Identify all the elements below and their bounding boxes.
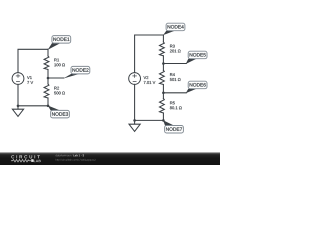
voltage source V2 (129, 73, 141, 85)
junction node B (162, 62, 165, 65)
footer url text (56, 159, 96, 161)
wire node C to NODE6 tip (163, 92, 186, 94)
wire V2 bottom (134, 84, 136, 120)
junction node C (162, 92, 165, 95)
wire bottom left rail (18, 105, 48, 107)
wire R2 bottom lead (47, 98, 49, 106)
label R2 name (54, 87, 59, 90)
node flag NODE2 (63, 66, 90, 78)
wire R3 top lead (162, 35, 164, 42)
wire R4 top lead (162, 64, 164, 71)
label V2 value (144, 81, 156, 84)
label V1 value (27, 81, 33, 84)
label V2 name (144, 76, 149, 79)
junction NODE3 (47, 105, 50, 108)
label R1 name (54, 58, 59, 61)
footer title text (56, 154, 73, 156)
node flag NODE3 (48, 106, 70, 118)
junction NODE7 (162, 119, 165, 122)
resistor R4 (160, 70, 165, 84)
label R2 value (54, 92, 65, 95)
node flag NODE1 (48, 36, 71, 50)
label R1 value (54, 63, 65, 66)
junction left ground (17, 105, 20, 108)
wire bottom right rail (135, 119, 164, 121)
wire R2 top lead (47, 78, 49, 84)
label R5 value (170, 106, 182, 109)
logo resistor squiggle (11, 160, 31, 162)
voltage source V1 (12, 73, 24, 85)
resistor R5 (160, 99, 165, 114)
label R5 name (170, 101, 175, 104)
logo LAB text (34, 160, 41, 162)
wire V1 top to corner (18, 49, 48, 72)
wire R5 top lead (162, 93, 164, 99)
label R4 value (170, 78, 181, 81)
label R3 name (170, 45, 175, 48)
wire node A to NODE2 tip (48, 77, 64, 79)
node flag NODE4 (163, 23, 185, 35)
wire R1 top lead (47, 49, 49, 56)
ground right stem (134, 120, 136, 124)
logo LAB plate (31, 159, 33, 162)
ground left (12, 109, 23, 116)
node flag NODE5 (186, 51, 207, 64)
wire V1 bottom (17, 84, 19, 105)
resistor R3 (160, 42, 165, 56)
ground left stem (17, 106, 19, 109)
wire V2 top to corner (135, 35, 164, 73)
wire node B to NODE5 tip (163, 63, 186, 65)
node flag NODE6 (186, 81, 207, 93)
wire R3 bottom lead to node B (162, 56, 164, 64)
label R3 value (170, 50, 181, 53)
resistor R2 (44, 84, 49, 98)
logo CIRCUIT text (11, 155, 40, 158)
node flag NODE7 (163, 120, 183, 133)
label R4 name (170, 73, 175, 76)
junction right ground (133, 119, 136, 122)
wire R4 bottom lead to node C (162, 85, 164, 93)
junction node A (47, 77, 50, 80)
ground right (129, 124, 140, 131)
label V1 name (27, 76, 32, 79)
wire R5 bottom lead (162, 113, 164, 120)
wire R1 bottom lead to node A (47, 70, 49, 79)
resistor R1 (44, 56, 49, 70)
